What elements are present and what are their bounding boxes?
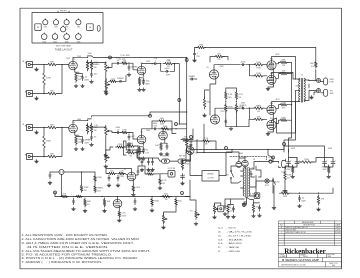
neon lamp NE1	[59, 170, 64, 175]
node J4a	[43, 156, 44, 157]
ground R55	[283, 189, 287, 192]
svg-text:68K: 68K	[50, 91, 54, 93]
svg-text:CUT SW: CUT SW	[207, 177, 214, 179]
node bd1	[231, 149, 232, 150]
switch S4	[162, 156, 170, 164]
resistor R58	[94, 185, 104, 193]
ground C12	[127, 142, 131, 145]
node PA in	[179, 123, 180, 124]
svg-text:5%: 5%	[239, 97, 242, 99]
svg-text:7025: 7025	[77, 41, 81, 43]
wire lr end	[332, 188, 334, 193]
svg-text:B400: B400	[332, 265, 335, 267]
node J2a	[43, 93, 44, 94]
capacitor C1	[81, 74, 89, 81]
svg-text:68K: 68K	[50, 125, 54, 127]
speaker jack J6	[317, 79, 321, 83]
wire grid t4	[263, 118, 267, 120]
wire ct label	[246, 202, 248, 205]
svg-text:330V: 330V	[328, 148, 333, 150]
node v4bp	[162, 128, 163, 129]
resistor R59	[103, 198, 111, 207]
capacitor C30	[298, 195, 306, 202]
svg-text:- 285#46: - 285#46	[227, 251, 242, 253]
capacitor C22	[72, 198, 74, 204]
wire tn4	[106, 147, 113, 150]
node st1	[175, 128, 176, 129]
svg-text:415V: 415V	[275, 54, 280, 56]
speaker plug P3	[321, 78, 335, 85]
svg-text:7. ARROW ( → ) INDICATES C.W.: 7. ARROW ( → ) INDICATES C.W. ROTATION.	[22, 261, 103, 264]
wire V2 k join	[140, 77, 144, 79]
resistor R26	[225, 103, 234, 113]
wire to PI	[179, 123, 186, 125]
wire ext gnd	[314, 92, 317, 95]
ground R4	[74, 84, 78, 87]
wire J4 to R12	[33, 156, 46, 158]
resistor R54	[227, 204, 235, 214]
svg-text:IN: IN	[22, 61, 24, 63]
node vol top	[105, 62, 106, 63]
svg-text:SHEET 1 OF 1: SHEET 1 OF 1	[329, 263, 338, 265]
svg-text:35: 35	[218, 247, 221, 249]
wire c17 gnd	[194, 57, 196, 59]
resistor R17	[120, 130, 128, 134]
svg-text:- B+477 / B+330: - B+477 / B+330	[227, 235, 253, 237]
wire pt pri bot	[250, 176, 256, 197]
resistor R38	[132, 185, 141, 193]
svg-text:2.2K: 2.2K	[204, 138, 209, 140]
wire V1 cathode	[75, 69, 79, 72]
svg-text:2W: 2W	[218, 59, 221, 61]
svg-text:2W: 2W	[205, 144, 208, 146]
svg-text:7025: 7025	[53, 41, 57, 43]
svg-text:.02: .02	[117, 129, 121, 131]
wire bleeder up	[285, 166, 289, 171]
wire k bot2	[272, 129, 274, 132]
wire screen lead 0	[276, 62, 280, 63]
resistor R23	[196, 45, 206, 49]
svg-text:1W: 1W	[78, 79, 81, 81]
svg-text:2.2K: 2.2K	[94, 127, 99, 129]
svg-text:220K: 220K	[256, 73, 261, 75]
svg-text:820: 820	[110, 171, 114, 173]
svg-text:4.7K: 4.7K	[239, 94, 244, 96]
pilot lamp	[265, 179, 269, 187]
svg-text:- VA+175 / B+230: - VA+175 / B+230	[227, 231, 253, 234]
wire stack top	[158, 128, 176, 130]
wire bf mid 1	[325, 166, 334, 168]
ground bf 1	[327, 175, 331, 178]
ground R38	[131, 193, 135, 196]
wire y1515	[138, 151, 143, 153]
ground C13	[142, 157, 146, 160]
node 2nd grid	[128, 63, 129, 64]
wire fuse to plug	[272, 162, 279, 164]
wire s1 out	[219, 175, 226, 177]
svg-text:1MEG: 1MEG	[128, 150, 134, 152]
svg-text:.0005: .0005	[240, 62, 246, 64]
wire fb drop	[315, 48, 317, 62]
wire st out	[176, 128, 187, 130]
wire rect plate	[239, 158, 245, 162]
tube V8	[267, 105, 276, 114]
switch S3 ground	[273, 180, 281, 185]
wire drive bus top	[246, 65, 249, 76]
wire r49 l	[297, 158, 302, 163]
svg-text:2W: 2W	[282, 65, 285, 67]
wire pt stub3	[241, 187, 244, 189]
node dt	[249, 64, 250, 65]
resistor RB0	[291, 165, 294, 174]
svg-text:10K: 10K	[107, 201, 111, 203]
svg-text:2W: 2W	[142, 152, 145, 154]
wire fuse in	[260, 161, 269, 163]
ground spk	[310, 96, 314, 99]
resistor R61	[115, 144, 124, 148]
node div a	[225, 101, 226, 102]
svg-text:2W: 2W	[94, 67, 97, 69]
resistor R20	[126, 143, 136, 147]
capacitor C16	[188, 76, 195, 80]
wire r49 r	[311, 158, 325, 163]
svg-text:10%: 10%	[282, 107, 286, 109]
node div b	[236, 101, 237, 102]
node G1	[61, 64, 62, 65]
wire v4b plate	[162, 129, 164, 131]
node tn	[105, 149, 106, 150]
node P2	[87, 120, 88, 121]
wire vol2 tail	[105, 137, 107, 154]
wire heater drop	[224, 199, 226, 204]
svg-text:330K: 330K	[199, 45, 204, 47]
svg-text:FRONT: FRONT	[60, 11, 68, 13]
power socket P1	[35, 24, 41, 31]
node J1a	[43, 64, 44, 65]
ground C39	[151, 168, 155, 171]
wire V3 cathode	[75, 132, 79, 135]
switch S2 ON-OFF	[226, 170, 233, 178]
resistor R10	[163, 61, 174, 68]
tube layout box	[32, 11, 103, 43]
svg-text:7025: 7025	[66, 58, 70, 60]
node tr3	[134, 196, 135, 197]
wire mix in	[152, 121, 158, 129]
capacitor C10	[90, 134, 97, 140]
node vol2 top	[105, 126, 106, 127]
tube layout label	[55, 45, 73, 51]
resistor R57	[94, 175, 103, 183]
tube V9	[267, 120, 276, 129]
ground C40	[165, 152, 169, 155]
wire bus b1	[249, 107, 254, 109]
wire screen out 2	[287, 104, 292, 106]
wire B+ ch1 to bus	[92, 56, 187, 58]
svg-text:.02 470K: .02 470K	[119, 59, 126, 61]
svg-text:VIBRATO: VIBRATO	[207, 173, 215, 176]
wire osc plate2	[138, 166, 145, 169]
svg-text:4. ALL VOLTAGES MEASURED TO GR: 4. ALL VOLTAGES MEASURED TO GROUND WITH …	[22, 250, 151, 253]
potentiometer SPEED	[195, 209, 200, 219]
tube V9B	[113, 199, 122, 208]
wire rail stub	[54, 192, 56, 197]
capacitor C24	[49, 172, 51, 178]
ground C25	[258, 214, 262, 217]
ground R48	[252, 214, 256, 217]
svg-text:- TAN#30: - TAN#30	[227, 246, 241, 249]
wire R12 to grid bus	[58, 128, 62, 157]
svg-text:GND SW: GND SW	[273, 181, 280, 183]
svg-text:(4): (4)	[218, 232, 221, 234]
ground C31	[223, 212, 227, 215]
wire drop A	[196, 140, 198, 153]
wire ct	[244, 198, 247, 203]
wire osc fb	[106, 169, 132, 174]
wire bf top 1	[325, 157, 334, 159]
wire bf r 1	[328, 166, 330, 167]
wire s1 up	[225, 170, 227, 176]
wire B+ rail ch1	[88, 61, 106, 64]
svg-text:10MFD: 10MFD	[188, 76, 195, 78]
wire pilot2	[269, 180, 273, 182]
svg-text:1W: 1W	[165, 199, 168, 201]
svg-text:6V6: 6V6	[54, 27, 57, 29]
svg-text:EXT: EXT	[330, 90, 333, 92]
svg-text:T2: T2	[301, 74, 303, 76]
svg-text:820: 820	[178, 201, 182, 203]
wire ps left	[190, 160, 197, 176]
ground R54	[226, 215, 230, 218]
resistor R45	[161, 194, 172, 202]
resistor R47	[80, 184, 89, 192]
svg-text:+: +	[290, 160, 292, 162]
wire ot p1	[299, 78, 300, 81]
wire bf caps top2 1	[332, 158, 334, 160]
svg-text:68K: 68K	[50, 154, 54, 156]
AC section boundary	[230, 156, 267, 159]
resistor R64	[155, 142, 162, 150]
capacitor C31	[224, 203, 232, 209]
wire feedback rail	[195, 47, 198, 49]
wire box link2	[170, 160, 179, 162]
transformer T1 POWER	[243, 168, 250, 198]
capacitor C13	[142, 147, 149, 154]
ground C21	[116, 184, 120, 187]
wire cathode join	[76, 73, 83, 75]
wire tn1	[124, 147, 126, 150]
svg-text:450V: 450V	[287, 169, 292, 171]
capacitor C2	[90, 71, 98, 77]
svg-text:1.5K: 1.5K	[281, 102, 286, 104]
tube V2A	[137, 66, 146, 75]
svg-text:25V: 25V	[196, 56, 200, 58]
capacitor C14	[153, 123, 158, 130]
svg-text:PILOT: PILOT	[265, 185, 269, 187]
wire J1 to R1	[33, 64, 46, 66]
svg-text:5%: 5%	[311, 66, 314, 68]
wire V2 cathode	[142, 74, 144, 76]
capacitor C34	[232, 206, 234, 212]
point H	[181, 192, 184, 195]
svg-text:225V: 225V	[220, 111, 225, 113]
resistor R6	[90, 60, 100, 71]
svg-text:68K: 68K	[87, 201, 91, 203]
svg-text:.0005: .0005	[164, 68, 170, 70]
wire pi cathodes	[210, 79, 216, 116]
transformer T2 OUTPUT	[299, 78, 306, 102]
svg-text:450V: 450V	[84, 143, 89, 145]
wire screen lead 1	[276, 74, 280, 79]
wire trem feed top	[183, 140, 202, 142]
capacitor C40	[166, 143, 168, 149]
svg-text:BOTTOM VIEW: BOTTOM VIEW	[56, 45, 71, 47]
node sb1	[291, 73, 292, 74]
wire feedback rail 2	[205, 47, 316, 49]
svg-text:56K: 56K	[217, 54, 221, 56]
svg-text:68K: 68K	[50, 62, 54, 64]
wire k bot	[268, 114, 273, 132]
ground C30	[298, 204, 302, 207]
svg-text:.05: .05	[140, 171, 144, 173]
svg-text:10K: 10K	[111, 78, 115, 80]
ground at J3	[35, 131, 39, 134]
point B	[149, 114, 152, 117]
svg-text:FOOT SW: FOOT SW	[168, 168, 176, 170]
svg-text:470K: 470K	[118, 144, 123, 146]
svg-text:1/2W: 1/2W	[119, 176, 124, 178]
capacitor C25	[258, 205, 260, 211]
svg-text:J4 IS OMITTED ON C.E.E. VERSIO: J4 IS OMITTED ON C.E.E. VERSION.	[27, 247, 110, 249]
node db	[249, 108, 250, 109]
resistor R9	[108, 78, 117, 82]
node tr2	[101, 196, 102, 197]
wire heater run	[225, 198, 244, 200]
node dropB	[203, 152, 204, 153]
resistor R37	[118, 171, 126, 179]
speaker jack J7	[317, 89, 321, 93]
potentiometer HUM BAL	[213, 204, 218, 214]
wire bus t1	[249, 64, 254, 66]
wire grid t1	[263, 64, 267, 66]
ground C17	[193, 59, 197, 62]
point E	[225, 147, 228, 150]
wire vol2 wiper	[109, 131, 115, 133]
wire bm up	[230, 199, 232, 204]
ground PT	[242, 202, 246, 205]
capacitor C35	[137, 168, 144, 174]
svg-text:455V: 455V	[291, 148, 296, 150]
wire V3 plate	[73, 120, 88, 124]
node pl bot	[295, 101, 296, 102]
wire caps top	[148, 158, 150, 159]
fuse F1	[268, 156, 272, 163]
node loop L	[160, 63, 161, 64]
tube V1A	[69, 59, 78, 70]
svg-text:750PF: 750PF	[166, 75, 171, 77]
wire tone to grid	[124, 76, 126, 82]
wire plate t3	[272, 102, 294, 106]
wire PA input bus	[178, 95, 180, 124]
capacitor C26	[286, 160, 293, 171]
wire mix out	[167, 121, 173, 129]
svg-text:465V: 465V	[239, 153, 244, 155]
wire k top	[268, 69, 273, 87]
ground R14	[74, 147, 78, 150]
resistor R16	[90, 123, 98, 134]
point K	[243, 204, 246, 207]
ground PA top	[266, 87, 270, 90]
svg-text:1: 1	[281, 232, 282, 234]
tube V9A OSC	[127, 172, 136, 181]
svg-text:270K: 270K	[185, 164, 190, 166]
svg-text:.02: .02	[301, 198, 305, 200]
svg-text:7025: 7025	[42, 41, 46, 43]
svg-text:56K: 56K	[310, 63, 314, 65]
svg-text:FS: FS	[89, 27, 92, 29]
node neon r	[81, 171, 82, 172]
svg-text:10%: 10%	[145, 153, 149, 155]
fuse holder	[97, 25, 100, 31]
wire v4b kj	[161, 142, 167, 144]
wire pilot	[251, 171, 255, 177]
svg-text:8 OHM: 8 OHM	[329, 82, 334, 84]
wire left col top	[183, 159, 191, 162]
ground at J4	[35, 160, 39, 163]
wire pt pri top	[250, 162, 260, 170]
svg-text:100K: 100K	[256, 62, 261, 64]
svg-text:1W: 1W	[162, 183, 165, 185]
wire v10 down	[189, 155, 191, 161]
wire screen b+	[289, 120, 292, 152]
jack J2	[25, 90, 32, 96]
svg-text:470K: 470K	[148, 171, 153, 173]
svg-text:600V: 600V	[301, 201, 306, 203]
svg-text:330K: 330K	[281, 117, 286, 119]
potentiometer VOLUME 2	[105, 125, 110, 137]
svg-text:330K: 330K	[46, 141, 51, 143]
wire r24 r	[223, 57, 228, 61]
wire pt stub4	[250, 173, 253, 175]
svg-text:SPKR: SPKR	[330, 93, 334, 95]
resistor R12	[46, 154, 58, 158]
resistor R3	[43, 71, 52, 87]
tube V6	[267, 61, 276, 70]
wire pt stub2	[241, 175, 244, 177]
ground C23	[133, 207, 137, 210]
resistor R52	[201, 138, 210, 146]
wire plate t4	[272, 102, 296, 133]
svg-text:270K: 270K	[122, 130, 127, 132]
wire bus low	[187, 147, 191, 152]
wire k top2	[272, 84, 274, 87]
resistor R41	[75, 195, 83, 198]
wire bleeder dn	[284, 182, 286, 190]
wire fb drop2	[315, 70, 317, 81]
layout tube V4	[76, 19, 81, 29]
switch S1 box	[202, 171, 219, 182]
jack J3	[25, 124, 32, 130]
potentiometer INTENSITY	[162, 214, 167, 225]
svg-text:- BLANK: - BLANK	[227, 238, 244, 241]
ground HB	[213, 215, 217, 218]
svg-text:2W: 2W	[84, 190, 87, 192]
ground C10	[90, 143, 94, 146]
svg-text:1/2W: 1/2W	[78, 142, 83, 144]
svg-text:TREM SW: TREM SW	[162, 156, 170, 158]
svg-text:10K: 10K	[155, 145, 159, 147]
capacitor C33	[181, 174, 187, 180]
svg-text:1. ALL RESISTORS 1/2W - 10% EX: 1. ALL RESISTORS 1/2W - 10% EXCEPT AS NO…	[22, 234, 109, 237]
